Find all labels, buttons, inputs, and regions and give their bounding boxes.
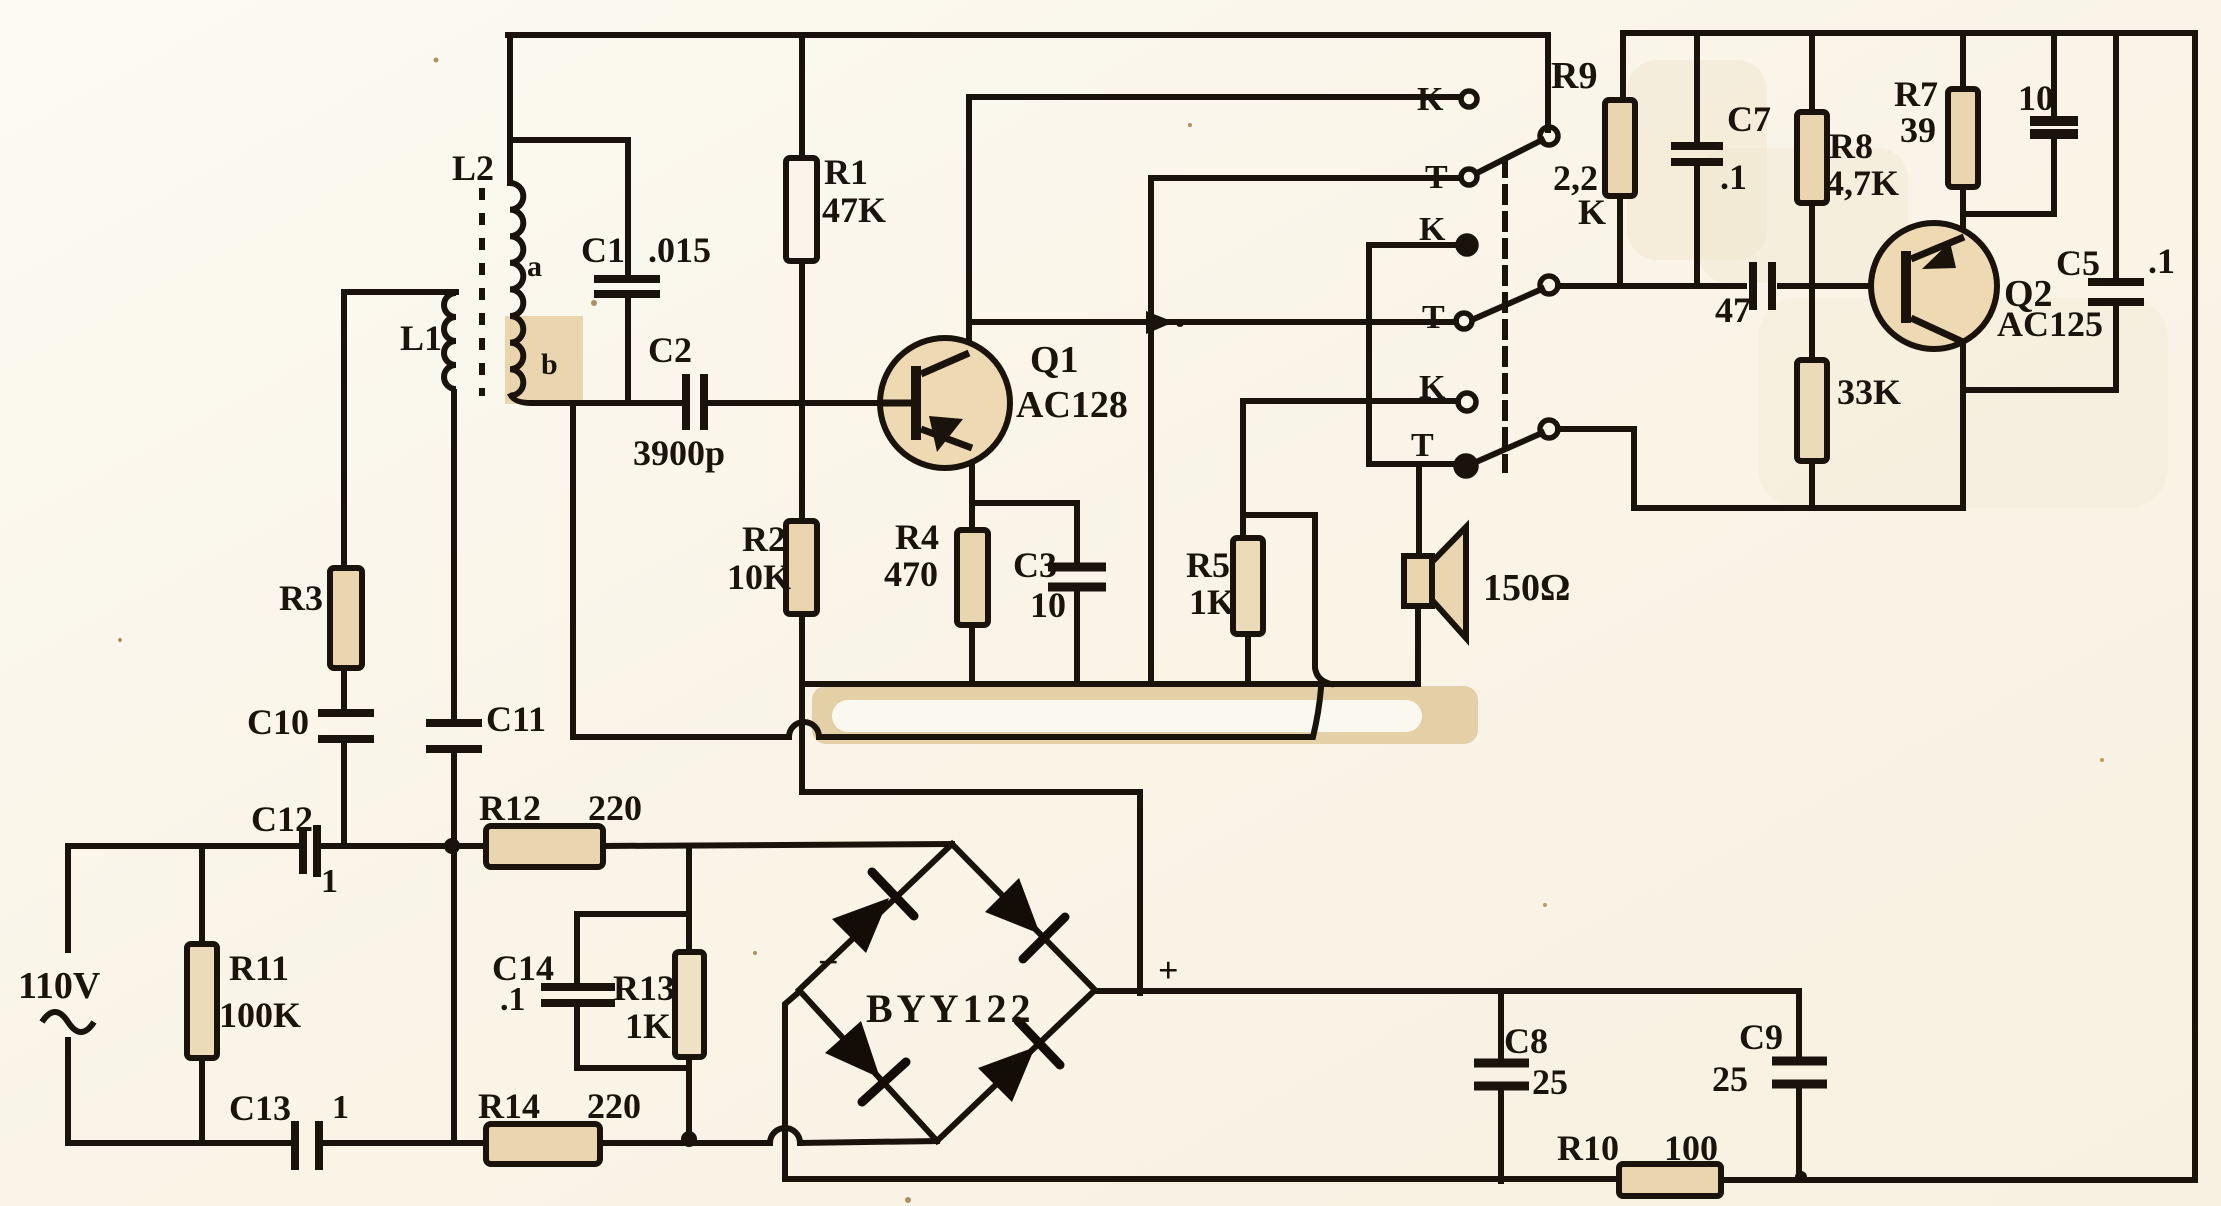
wire 10uF top lead — [2051, 33, 2057, 119]
svg-text:R11: R11 — [229, 948, 289, 988]
svg-text:BYY122: BYY122 — [866, 986, 1034, 1031]
svg-text:1: 1 — [332, 1089, 349, 1126]
wire bus down to plus rail — [802, 684, 1140, 993]
wire switch gang dashed link — [1502, 160, 1508, 470]
junction C9 bottom — [1795, 1171, 1807, 1183]
wire C9 bottom lead — [1796, 1084, 1802, 1178]
wire right edge return — [2192, 33, 2198, 1178]
wire switch arm 1 — [1477, 140, 1542, 173]
wire speaker top lead — [1416, 464, 1422, 556]
wire R1 top lead — [799, 35, 805, 158]
wire R5 bypass loop — [1243, 515, 1331, 684]
svg-text:T: T — [1411, 427, 1434, 464]
svg-text:1K: 1K — [625, 1006, 671, 1046]
diode D4 lower-right — [978, 1021, 1060, 1102]
wire T1 vertical to bus — [1148, 178, 1154, 684]
wire R1 bottom to base junction — [799, 261, 805, 403]
junction C11 AC line — [444, 838, 460, 854]
resistor R2 10K — [786, 521, 817, 614]
wire C5 top lead — [2113, 33, 2119, 281]
svg-text:R5: R5 — [1186, 545, 1230, 585]
svg-text:R2: R2 — [742, 519, 786, 559]
capacitor C12 plates — [303, 825, 317, 877]
resistor R5 1K — [1233, 538, 1263, 634]
wire Q2 base line left — [1558, 283, 1744, 289]
wire C1 top stub — [510, 140, 628, 277]
svg-text:100: 100 — [1664, 1128, 1718, 1168]
wire C14 top lead — [574, 914, 580, 986]
svg-text:150Ω: 150Ω — [1483, 567, 1570, 609]
resistor R11 100K — [187, 944, 217, 1058]
wire L2 bottom to C2 (Q1 base line) — [511, 396, 683, 403]
diode D1 lower-left — [825, 1021, 906, 1102]
capacitor C2 plates — [686, 374, 704, 430]
svg-text:K: K — [1419, 369, 1446, 406]
svg-text:T: T — [1422, 299, 1445, 336]
AC source symbol — [42, 1012, 94, 1032]
svg-text:C8: C8 — [1504, 1021, 1548, 1061]
capacitor C3 plates — [1048, 567, 1106, 587]
pivot P1 — [1540, 127, 1558, 145]
capacitor C8 plates — [1474, 1063, 1529, 1086]
diode D2 upper-left — [832, 872, 914, 953]
contact T2 — [1456, 313, 1472, 329]
resistor R8 4.7K — [1797, 112, 1827, 203]
svg-text:.1: .1 — [1720, 157, 1747, 197]
resistor R4 470 — [957, 530, 988, 625]
capacitor C14 plates — [541, 987, 615, 1003]
transistor Q1 AC128 — [878, 338, 1010, 468]
resistor R12 220 — [486, 826, 603, 867]
svg-text:47: 47 — [1715, 290, 1751, 330]
wire L1 top lead — [344, 289, 456, 295]
svg-text:470: 470 — [884, 554, 938, 594]
svg-text:.015: .015 — [648, 230, 711, 270]
wire Q1 collector riser / K contact feed — [966, 97, 972, 341]
junction R13 bottom — [681, 1131, 697, 1147]
svg-text:R7: R7 — [1894, 74, 1938, 114]
wire C14 bottom lead — [574, 1004, 580, 1068]
svg-text:−: − — [818, 942, 839, 982]
wire bottom negative rail right — [1721, 1177, 2195, 1183]
resistor R9 2.2K — [1605, 100, 1635, 196]
svg-text:R8: R8 — [1829, 126, 1873, 166]
pivot P3 — [1540, 420, 1558, 438]
wire K1 contact line — [969, 94, 1460, 100]
wire emitter to C3 — [972, 503, 1077, 565]
capacitor C11 plates — [426, 723, 482, 749]
resistor R13 1K — [675, 952, 704, 1057]
wire 110V source bottom — [65, 1040, 71, 1143]
wire R11 top lead — [199, 846, 205, 944]
capacitor 10uF plates — [2030, 121, 2078, 134]
contact K1 — [1461, 91, 1477, 107]
contact T1 — [1461, 169, 1477, 185]
wire K2 contact line — [1369, 242, 1458, 248]
svg-text:C1: C1 — [581, 230, 625, 270]
svg-text:K: K — [1419, 211, 1446, 248]
wire plus rail — [1095, 988, 1799, 994]
wire emitter node to bypass cap — [1963, 211, 2054, 217]
diode bridge diamond — [799, 844, 1095, 1141]
wire R7 top lead — [1960, 33, 1966, 89]
resistor 33K — [1797, 360, 1827, 461]
wire pivot3 to lower rail — [1558, 429, 1963, 508]
wire AC return after C13 — [320, 1140, 770, 1146]
capacitor C7 plates — [1671, 146, 1723, 162]
wire K3 contact line — [1369, 398, 1458, 404]
arrow signal direction on collector wire — [1146, 311, 1174, 334]
svg-text:110V: 110V — [18, 965, 101, 1007]
svg-text:L1: L1 — [400, 318, 442, 358]
wire C8 top lead — [1498, 991, 1504, 1062]
wire hop over minus branch — [770, 1128, 800, 1143]
wire R5 top lead — [1240, 401, 1246, 538]
svg-text:.1: .1 — [500, 981, 526, 1018]
svg-text:47K: 47K — [822, 190, 886, 230]
wire R4 bottom lead — [969, 625, 975, 684]
wire R2 top lead — [799, 403, 805, 521]
transformer core dashed — [479, 188, 485, 396]
svg-text:b: b — [541, 348, 558, 381]
svg-text:T: T — [1425, 159, 1448, 196]
svg-text:L2: L2 — [452, 148, 494, 188]
wire R3 to C10 — [341, 668, 347, 712]
svg-text:100K: 100K — [219, 995, 301, 1035]
capacitor C9 plates — [1772, 1061, 1827, 1084]
wire top-right supply rail — [1623, 30, 2195, 36]
svg-text:K: K — [1578, 192, 1606, 232]
wire switch arm 2 — [1476, 289, 1542, 318]
wire L1 bottom to C11 — [451, 392, 457, 722]
svg-text:25: 25 — [1532, 1062, 1568, 1102]
wire collector to C5 — [1963, 387, 2116, 393]
wire Q2 base line right — [1780, 283, 1871, 289]
wire C7 bottom lead — [1694, 163, 1700, 286]
svg-text:Q1: Q1 — [1030, 339, 1079, 381]
wire T1 contact line — [1151, 175, 1460, 181]
svg-text:C11: C11 — [486, 699, 546, 739]
resistor R14 220 — [486, 1124, 600, 1164]
svg-text:3900p: 3900p — [633, 433, 725, 473]
svg-text:10: 10 — [1030, 585, 1066, 625]
resistor R7 39 — [1948, 89, 1978, 187]
capacitor 47pF plates — [1753, 262, 1772, 310]
capacitor C13 plates — [295, 1121, 319, 1170]
contact K3 — [1458, 393, 1476, 411]
svg-text:220: 220 — [587, 1086, 641, 1126]
svg-text:4,7K: 4,7K — [1826, 163, 1899, 203]
svg-text:1K: 1K — [1189, 582, 1235, 622]
diode D3 upper-right — [985, 878, 1065, 959]
wire Q1 collector line to T contact — [969, 319, 1456, 325]
svg-text:AC125: AC125 — [1997, 304, 2103, 344]
capacitor C10 plates — [318, 713, 374, 739]
wire R9 top lead — [1620, 33, 1626, 100]
contact T3 — [1456, 456, 1476, 476]
wire R13 bottom lead — [686, 1057, 692, 1143]
svg-text:25: 25 — [1712, 1059, 1748, 1099]
svg-text:R9: R9 — [1551, 55, 1597, 97]
wire speaker bottom lead — [1415, 606, 1421, 684]
wire R5 top line — [1243, 398, 1369, 404]
wire AC return to bridge bottom — [800, 1141, 937, 1143]
svg-text:C12: C12 — [251, 799, 313, 839]
wire switch group vertical — [1366, 245, 1372, 464]
wire Q1 emitter lead — [969, 446, 975, 530]
wire C3 bottom lead — [1074, 588, 1080, 684]
wire C8 bottom lead — [1498, 1086, 1504, 1181]
wire R8 top lead — [1809, 33, 1815, 112]
svg-text:C3: C3 — [1013, 545, 1057, 585]
svg-text:AC128: AC128 — [1016, 384, 1128, 426]
svg-text:C10: C10 — [247, 702, 309, 742]
wire 110V source top — [65, 846, 71, 950]
wire Q2 collector lead down — [1960, 341, 1966, 508]
inductor L2 secondary coil — [510, 183, 523, 396]
capacitor C1 plates — [594, 279, 660, 294]
wire C11 bottom long vertical — [451, 750, 457, 1143]
wire AC live after C12 — [318, 843, 486, 849]
pivot P2 — [1540, 276, 1558, 294]
wire 33K bottom lead — [1809, 461, 1815, 508]
wire C2 to base junction — [705, 400, 878, 406]
svg-text:C13: C13 — [229, 1088, 291, 1128]
wire R9 bottom lead — [1617, 196, 1623, 286]
wire R7 bottom to Q2 emitter — [1960, 187, 1966, 238]
svg-text:R1: R1 — [824, 152, 868, 192]
wire lower ground bus — [573, 734, 789, 740]
wire R13 top lead — [686, 846, 692, 952]
inductor L1 primary coil — [444, 293, 456, 389]
wire C10 to AC line — [341, 740, 347, 846]
wire R8 to 33K through base node — [1809, 203, 1815, 360]
svg-text:+: + — [1158, 950, 1179, 990]
svg-text:R13: R13 — [613, 968, 675, 1008]
wire AC return line — [68, 1140, 292, 1146]
resistor R3 — [330, 568, 362, 668]
capacitor C5 plates — [2088, 282, 2144, 302]
svg-text:a: a — [527, 250, 542, 283]
wire emitter ground bus — [802, 681, 1418, 687]
wire bridge minus branch — [785, 992, 799, 1179]
wire C14 bottom link — [577, 1065, 689, 1071]
wire R3 top lead — [341, 292, 347, 568]
wire AC live line — [68, 843, 300, 849]
wire R12 to bridge top — [603, 844, 952, 846]
wire bottom negative rail left — [785, 1176, 1619, 1182]
svg-text:33K: 33K — [1837, 372, 1901, 412]
speaker 150 ohm — [1404, 527, 1466, 638]
wire C14 top link — [577, 911, 689, 917]
svg-text:10K: 10K — [727, 557, 791, 597]
wire switch arm 3 — [1476, 433, 1542, 462]
svg-text:K: K — [1417, 81, 1444, 118]
wire T3 contact line — [1369, 461, 1455, 467]
svg-text:R10: R10 — [1557, 1128, 1619, 1168]
svg-text:220: 220 — [588, 788, 642, 828]
svg-text:R3: R3 — [279, 578, 323, 618]
wire R5 bottom lead — [1245, 634, 1251, 684]
svg-text:R12: R12 — [479, 788, 541, 828]
svg-text:C5: C5 — [2056, 243, 2100, 283]
wire R11 bottom lead — [199, 1058, 205, 1143]
resistor R10 100 — [1619, 1164, 1721, 1196]
svg-text:C7: C7 — [1727, 99, 1771, 139]
contact K2 — [1458, 236, 1476, 254]
svg-text:C9: C9 — [1739, 1017, 1783, 1057]
svg-text:39: 39 — [1900, 110, 1936, 150]
wire C5 bottom lead — [2113, 303, 2119, 390]
svg-text:R4: R4 — [895, 517, 939, 557]
transistor Q2 AC125 — [1871, 223, 1997, 349]
resistor R1 47K — [786, 158, 817, 261]
svg-text:R14: R14 — [478, 1086, 540, 1126]
wire C9 top lead — [1796, 991, 1802, 1060]
wire R2 bottom lead — [799, 614, 805, 684]
node L2-b junction vertical — [570, 403, 576, 737]
wire lower bus right part — [819, 688, 1321, 737]
svg-text:.1: .1 — [2148, 241, 2175, 281]
svg-text:C2: C2 — [648, 330, 692, 370]
wire L2 top lead — [507, 35, 513, 183]
wire C7 top lead — [1694, 33, 1700, 145]
svg-text:10: 10 — [2018, 78, 2054, 118]
wire C1 bottom lead — [625, 295, 631, 403]
wire 10uF bottom lead — [2051, 135, 2057, 214]
svg-text:1: 1 — [321, 863, 338, 900]
wire hop over vertical — [789, 722, 819, 737]
wire top-left supply rail — [508, 35, 1548, 130]
